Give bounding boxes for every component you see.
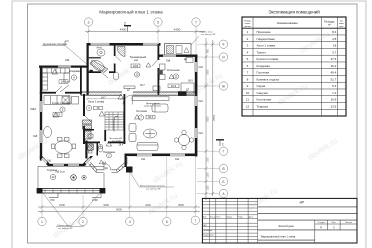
svg-text:7: 7 [195,21,197,25]
svg-text:Ок6: Ок6 [166,60,171,63]
row areas [330,30,336,108]
svg-text:Холл 1 этажа: Холл 1 этажа [88,100,105,104]
svg-text:Ок4: Ок4 [199,132,204,135]
svg-text:1: 1 [41,220,43,224]
svg-text:Лист: Лист [216,217,220,219]
svg-text:4: 4 [129,220,131,224]
svg-text:3: 3 [333,226,335,230]
svg-text:Номер: Номер [244,21,252,23]
svg-text:11: 11 [246,98,249,102]
window Ok6 storeroom top [58,66,71,68]
wc fixtures mid [88,134,103,153]
svg-text:Прихожая: Прихожая [257,30,271,34]
svg-text:Кухня-столовая: Кухня-столовая [257,57,279,61]
svg-text:1200: 1200 [207,185,209,191]
window Ok4 east upper [195,96,198,106]
svg-text:deutek.ru: deutek.ru [151,159,184,185]
stair west wall stub [104,130,106,143]
svg-text:Листов: Листов [345,222,353,224]
right axis circles [219,40,227,198]
svg-text:зал: зал [134,59,139,62]
wc partition horizontal [85,129,94,131]
black door post sauna [90,70,93,73]
wall storeroom top [39,66,87,68]
svg-text:13.5: 13.5 [330,104,336,108]
wall storeroom bottom [40,92,82,94]
svg-text:34.7: 34.7 [101,97,106,100]
svg-text:16.9: 16.9 [171,84,177,88]
svg-text:7.2: 7.2 [332,91,337,95]
svg-text:2: 2 [82,220,84,224]
terrace outline [38,166,104,190]
door gap sauna bottom [101,71,109,73]
svg-text:Холл 1 этажа: Холл 1 этажа [257,44,276,48]
sauna partition [89,57,101,58]
svg-text:№док.: №док. [227,216,233,219]
svg-text:Ок1: Ок1 [47,160,52,163]
svg-text:6500: 6500 [207,116,209,122]
window Ok1 south [137,154,152,157]
svg-text:ГАП: ГАП [203,224,207,227]
svg-text:18: 18 [97,106,100,110]
gym equipment [113,72,160,91]
svg-text:Д7: Д7 [127,89,131,92]
svg-text:Лист: Лист [332,222,337,224]
storeroom shelves [43,68,70,90]
row numbers [246,30,250,108]
svg-text:700: 700 [50,198,55,202]
svg-text:Изм: Изм [203,217,207,219]
svg-text:Р: Р [320,226,322,230]
svg-text:18: 18 [333,44,337,48]
bay window on right diagonal [85,158,92,165]
window gym top east [143,43,159,46]
svg-text:Гардеробная: Гардеробная [257,37,276,41]
svg-text:К: К [223,43,225,47]
svg-text:поме-: поме- [245,23,251,25]
door gap divider [157,60,159,68]
svg-text:1: 1 [222,143,224,147]
door gap storeroom bottom [56,92,65,94]
svg-text:Ок5: Ок5 [33,135,38,138]
svg-text:см. констр. КР: см. констр. КР [201,34,216,36]
svg-text:16.9: 16.9 [330,98,336,102]
svg-text:3: 3 [247,44,249,48]
terrace corner posts [37,188,43,194]
svg-text:4.8: 4.8 [332,37,337,41]
section flag 1 right [216,140,224,146]
svg-text:Обрыв стены: Обрыв стены [199,32,213,34]
wc partition vertical [97,142,99,156]
svg-text:Котельная: Котельная [257,98,272,102]
tv console below wall [132,97,169,101]
svg-text:9600: 9600 [116,208,122,212]
svg-text:Д7: Д7 [186,89,190,92]
svg-text:10: 10 [246,91,250,95]
dining table [52,138,76,158]
wall under stairs [85,142,126,144]
svg-text:Комната отдыха: Комната отдыха [257,77,280,81]
chaise top living [152,104,168,112]
svg-text:6: 6 [73,76,75,80]
svg-text:deutek.ru: deutek.ru [306,136,339,162]
svg-text:6: 6 [166,220,168,224]
door gap under stairs [100,141,108,143]
hall internal dim line [86,98,123,100]
svg-text:deutek.ru: deutek.ru [16,136,49,162]
svg-text:Ок5 1сэт: Ок5 1сэт [55,171,66,174]
wall gym top [87,43,161,46]
wall sauna west [87,43,89,95]
svg-text:Кладовая: Кладовая [69,69,81,73]
table outer border [242,17,346,116]
svg-text:Сауна: Сауна [257,84,266,88]
bay window on left diagonal [41,157,47,164]
svg-text:36.7: 36.7 [140,84,145,87]
wall east [195,55,198,157]
middle hatched wall [81,92,197,95]
svg-text:10: 10 [135,73,139,77]
svg-text:8.4: 8.4 [103,162,107,165]
stage grid [315,220,357,243]
wall west exterior [40,66,42,161]
svg-text:Терраса: Терраса [257,104,269,108]
svg-text:7: 7 [194,219,196,223]
svg-text:4400: 4400 [120,28,127,32]
svg-text:49.4: 49.4 [330,71,336,75]
row names [257,30,280,108]
entrance bay walls thin [85,141,87,159]
svg-text:Маркировочный план 1 этажа: Маркировочный план 1 этажа [99,9,163,15]
window Ok3 east [195,62,198,72]
svg-text:11: 11 [175,75,178,79]
note wood cladding top-left [42,46,88,66]
svg-text:Кухня-столовая: Кухня-столовая [52,101,71,105]
svg-text:Душ1: Душ1 [97,47,103,49]
svg-text:Экспликация помещений: Экспликация помещений [268,10,320,15]
svg-text:Ок6: Ок6 [65,59,70,62]
wall gym-boiler divider [158,44,160,95]
svg-text:8: 8 [247,77,249,81]
svg-text:3: 3 [88,106,90,110]
svg-text:5.3: 5.3 [332,84,337,88]
svg-text:9: 9 [247,84,249,88]
bottom axis circles [38,216,200,226]
svg-text:Ок4: Ок4 [199,100,204,103]
svg-text:1: 1 [108,154,110,158]
warning triangles [52,69,169,199]
svg-text:2700: 2700 [92,198,98,202]
column block sw living [126,167,133,173]
svg-text:15500: 15500 [214,114,216,121]
svg-text:Жилой дом: Жилой дом [278,224,293,228]
terrace column circles [71,175,77,181]
svg-text:Стадия: Стадия [318,222,325,224]
TABLE GROUP [242,10,346,117]
svg-text:щения: щения [244,26,251,28]
right area horizontals [258,207,357,240]
svg-text:Кат.: Кат. [340,21,344,23]
wc labels [89,144,93,148]
fireplace block [178,91,187,96]
svg-text:Ок3: Ок3 [199,66,204,69]
svg-text:28.4: 28.4 [119,144,124,147]
svg-text:Кол.уч: Кол.уч [210,217,216,219]
watermark deutek.ru tiles [16,29,339,240]
axis circle 7 [192,18,200,26]
svg-text:3600: 3600 [178,203,184,207]
right vertical dimension lines [205,38,215,200]
living room sofa [129,124,158,151]
svg-text:12: 12 [51,175,55,179]
window Ok6 boiler top [163,55,176,57]
sauna interior wall bottom [88,71,115,73]
svg-text:7: 7 [247,71,249,75]
living room south wall [125,154,198,157]
svg-text:4400: 4400 [145,203,151,207]
svg-text:deutek.ru: deutek.ru [51,214,84,240]
door gap hall-kitchen [83,116,85,126]
svg-text:5: 5 [157,21,159,25]
header texts [244,20,344,28]
svg-text:4400: 4400 [174,28,181,32]
TITLEBLOCK GROUP [202,198,357,243]
svg-text:deutek.ru: deutek.ru [276,81,309,107]
right axis leaders [197,44,219,193]
svg-text:31.7: 31.7 [330,77,336,81]
svg-text:м²: м² [328,24,331,27]
svg-text:49.4: 49.4 [148,115,154,119]
section flag 2 [124,26,131,32]
svg-text:2: 2 [247,37,249,41]
svg-text:1: 1 [247,30,249,34]
svg-text:3.7: 3.7 [332,50,337,54]
svg-text:37.5: 37.5 [330,57,336,61]
converging note lines bottom-left [43,193,99,227]
left grid verticals [210,198,258,243]
svg-text:Маркировочный план 1 этажа: Маркировочный план 1 этажа [261,236,296,239]
axis circle 5 [154,18,162,26]
svg-text:1700: 1700 [207,157,209,163]
living round table with chairs [174,130,193,149]
svg-text:Подп.: Подп. [238,217,244,219]
svg-text:1300: 1300 [207,172,209,178]
axis circle 3 [84,18,92,26]
door gap middle wall [122,92,133,96]
svg-text:щен.: щен. [339,26,344,28]
svg-text:Разработал: Разработал [203,235,215,237]
svg-text:600: 600 [207,48,209,53]
svg-text:2: 2 [100,145,102,149]
flag on note [65,41,69,46]
svg-text:31.8: 31.8 [133,64,139,68]
svg-text:4: 4 [247,50,249,54]
svg-text:Обрыв стены: Обрыв стены [57,225,71,227]
window Ok6/1 west [40,101,42,112]
elevation mark 700 [49,194,58,198]
window gym top west [91,43,110,46]
bottom dimension lines [38,206,200,214]
table header row [242,27,346,29]
sauna interior wall vertical [114,44,116,73]
svg-text:Котельная: Котельная [167,68,180,72]
svg-text:см. констр. КР: см. констр. КР [146,188,161,190]
svg-text:5: 5 [62,108,64,112]
svg-text:8.4: 8.4 [332,30,337,34]
svg-text:на +0.00: на +0.00 [112,140,121,142]
stair east wall [124,94,126,144]
window Ok5 west [40,130,42,143]
bottom axis leaders [42,157,195,217]
svg-text:Санузел: Санузел [257,91,269,95]
wc flue box [88,144,94,150]
svg-text:36.9: 36.9 [188,80,193,83]
svg-text:каминная вставка: каминная вставка [144,105,162,107]
svg-text:Г: Г [223,150,225,154]
svg-text:поме-: поме- [339,23,345,25]
svg-text:см. констр. КР: см. констр. КР [58,228,73,230]
svg-text:Ок1: Ок1 [141,158,146,161]
svg-text:37.5: 37.5 [55,113,61,117]
right dim labels [207,48,216,190]
svg-text:Гостиная: Гостиная [136,109,147,113]
svg-text:2900: 2900 [207,69,209,75]
top dimension line [85,30,205,33]
svg-text:Гостиная: Гостиная [257,71,270,75]
svg-text:2: 2 [124,22,126,26]
svg-text:7: 7 [140,116,142,120]
svg-text:4400: 4400 [103,203,109,207]
window Ok4 south [170,154,185,157]
svg-text:Металлическая колонна: Металлическая колонна [140,186,166,188]
vent stack boxes [83,120,92,139]
storeroom door [60,85,69,92]
terrace deck edge [37,189,105,194]
kitchen counters [44,96,79,138]
svg-text:Ок4: Ок4 [175,158,180,161]
kitchen bay bottom [40,156,93,166]
svg-text:Туалет: Туалет [257,50,267,54]
PLAN GROUP [30,18,228,230]
left grid horizontals [202,202,257,240]
bay windows thin [53,164,64,166]
svg-text:Кладовая: Кладовая [257,64,271,68]
flue block above boiler room [165,44,192,56]
svg-text:5: 5 [247,57,249,61]
svg-text:16.2: 16.2 [61,80,67,84]
svg-text:Наименование: Наименование [277,21,298,25]
svg-text:Д1: Д1 [184,58,188,61]
wall boiler top [158,55,198,57]
svg-text:3: 3 [88,21,90,25]
svg-text:6: 6 [247,64,249,68]
svg-text:16.2: 16.2 [330,64,336,68]
svg-text:Ок6/1: Ок6/1 [30,108,37,111]
header labels [203,216,254,237]
hall-kitchen divider wall [83,94,85,144]
boiler room fixtures [159,58,195,95]
top axis leader lines [89,27,197,94]
wall storeroom right [80,66,82,95]
elevation mark 2700 [92,194,101,198]
svg-text:12: 12 [246,104,250,108]
svg-text:deutek.ru: deutek.ru [146,191,179,217]
outer rect [202,198,357,243]
sauna bath top-left [90,47,125,73]
jog wall at living sw corner [125,154,127,168]
svg-text:-АР: -АР [299,201,304,205]
window Ok4 east lower [195,128,198,138]
svg-text:Деревянная обшивка: Деревянная обшивка [43,43,67,46]
svg-text:1500: 1500 [59,203,65,207]
svg-text:Проверил: Проверил [203,230,213,232]
entrance door gap + arc [104,169,112,173]
